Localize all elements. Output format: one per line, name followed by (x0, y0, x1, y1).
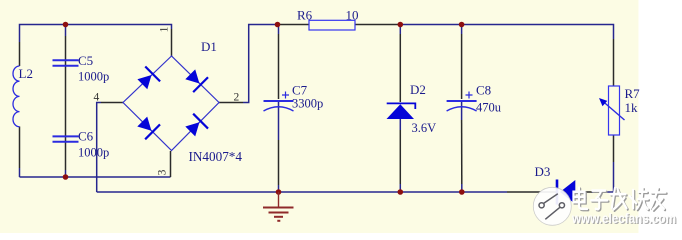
node: D2 bottom junction (398, 189, 404, 195)
capacitor C6 (53, 136, 79, 141)
resistor R6 (309, 20, 355, 30)
svg-text:1: 1 (159, 26, 171, 32)
pin: C8 leads (461, 34, 463, 99)
diode D1c (bottom-left arm) (135, 114, 160, 139)
wire: L2 bottom stub to AC bottom wire (19, 168, 21, 177)
ground symbol (263, 192, 294, 221)
node: C8 bottom junction (459, 189, 465, 195)
svg-text:R7: R7 (625, 86, 641, 101)
svg-text:C5: C5 (78, 53, 93, 68)
diode D1d (bottom-right arm) (183, 114, 208, 139)
pin: C5/C6 stem (65, 36, 67, 170)
node: C7 top junction (275, 22, 281, 28)
svg-text:3: 3 (157, 169, 169, 175)
capacitor C5 (53, 60, 79, 66)
svg-text:1000p: 1000p (78, 70, 109, 84)
pin: R7 leads (613, 39, 615, 86)
zener diode D2 (387, 103, 416, 119)
diode D3 (557, 180, 575, 205)
bridge rectifier D1 diamond (123, 56, 219, 151)
svg-text:C7: C7 (292, 83, 308, 98)
pin: D2 leads (399, 34, 401, 102)
wire: D2 column stubs (399, 25, 401, 35)
svg-text:3300p: 3300p (292, 97, 323, 111)
node: D2 top junction (398, 22, 404, 28)
inductor L2 (13, 66, 20, 127)
wire: pin4 riser down to bottom rail (97, 103, 101, 193)
wire: top rail mid (dot C7 handled) (400, 24, 461, 26)
capacitor C7 (electrolytic) (264, 92, 294, 112)
wire: C6 bottom stub (65, 170, 67, 177)
node: L2/C6 bottom junction (63, 174, 69, 180)
pin: bridge pin3 (170, 151, 172, 177)
svg-text:2: 2 (234, 92, 240, 104)
watermark logo circle (533, 187, 571, 225)
wire: C8 column stubs (461, 25, 463, 35)
svg-text:1k: 1k (625, 100, 639, 115)
svg-text:4: 4 (94, 92, 100, 104)
svg-text:C6: C6 (78, 129, 94, 144)
potentiometer R7 (609, 86, 620, 135)
black component pins (20, 25, 614, 193)
wire: AC bottom wire from L2 to bridge pin3 (20, 176, 171, 178)
wire: pin2 riser up to top rail (243, 25, 278, 103)
R7 wiper arrow (603, 101, 625, 120)
svg-text:R6: R6 (297, 8, 313, 23)
wire: C5 top stub (65, 25, 67, 37)
wire: bottom rail left of D3 (97, 191, 507, 193)
pin: bridge pin4 (101, 102, 123, 104)
node: ground junction (276, 189, 282, 195)
wire: R7 bottom to bottom rail corner (592, 162, 614, 192)
pin: R6 left pin (278, 24, 310, 26)
svg-text:IN4007*4: IN4007*4 (189, 149, 243, 164)
svg-text:3.6V: 3.6V (412, 121, 437, 135)
pin: L2 bottom lead (19, 127, 21, 169)
pin: bridge pin1 (171, 29, 173, 56)
wire: top-left rail from L2 top to bridge pin1 riser (20, 25, 614, 193)
node: L2/C5 top junction (63, 22, 69, 28)
svg-text:L2: L2 (19, 66, 33, 81)
svg-text:470u: 470u (476, 101, 502, 115)
diode D1b (top-right arm) (183, 67, 208, 92)
pin: bridge pin2 (219, 102, 243, 104)
svg-text:D3: D3 (535, 164, 551, 179)
svg-text:10: 10 (346, 8, 359, 23)
svg-text:1000p: 1000p (78, 146, 109, 160)
wire: C7 column stubs (278, 25, 280, 35)
pin: R6 right pin (355, 24, 400, 26)
pin: C7 leads (278, 34, 280, 99)
svg-text:D2: D2 (410, 82, 426, 97)
wire: top rail right to R7 corner (462, 25, 614, 40)
node: C8 top junction (459, 22, 465, 28)
diode D1a (top-left arm) (135, 67, 160, 92)
pin: L2 top lead (19, 42, 21, 66)
svg-text:www.elecfans.com: www.elecfans.com (571, 210, 676, 226)
svg-text:D1: D1 (201, 39, 217, 54)
svg-text:C8: C8 (476, 83, 491, 98)
pin: D3 leads (507, 191, 556, 193)
capacitor C8 (electrolytic) (447, 92, 477, 112)
